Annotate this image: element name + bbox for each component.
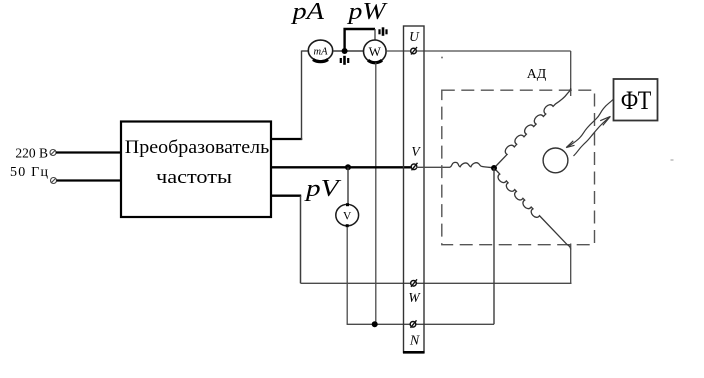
ammeter PA1 (mA) xyxy=(308,40,332,62)
node terminal V xyxy=(411,163,417,171)
artifact dash xyxy=(671,159,674,161)
node junction ammeter-wattmeter xyxy=(342,48,348,54)
wire U down into motor xyxy=(570,51,572,96)
svg-text:pW: pW xyxy=(346,0,388,25)
winding phase W xyxy=(495,169,571,250)
svg-text:50 Гц: 50 Гц xyxy=(10,165,49,180)
wire wattmeter to terminal strip U xyxy=(386,50,571,52)
wire main V line converter to strip xyxy=(271,166,416,168)
wire strip V to motor winding xyxy=(416,166,449,168)
wire 50Hz to converter xyxy=(57,179,122,181)
wire vertical down from converter xyxy=(300,196,302,284)
arrow light beam to shaft xyxy=(566,100,613,148)
wire ammeter to junction xyxy=(333,50,364,52)
svg-text:N: N xyxy=(409,334,420,349)
node terminal W xyxy=(411,279,417,287)
winding phase V xyxy=(449,162,494,167)
wire converter output U stub xyxy=(271,138,302,140)
wire vertical up to ammeter xyxy=(301,51,303,141)
node terminal N xyxy=(410,320,416,328)
wire star point down to N xyxy=(493,168,495,324)
node terminal U xyxy=(411,47,417,55)
wire jumper junction to wattmeter voltage terminal xyxy=(345,29,375,51)
svg-text:pA: pA xyxy=(290,0,325,25)
wattmeter PW1 xyxy=(364,40,387,63)
svg-text:U: U xyxy=(409,29,420,44)
wire to ammeter xyxy=(302,50,310,52)
motor dashed enclosure xyxy=(442,90,595,245)
wire 220V to converter xyxy=(56,151,121,153)
winding phase U xyxy=(496,88,571,166)
wire W line horizontal xyxy=(301,282,572,284)
svg-text:частоты: частоты xyxy=(156,167,232,188)
node star point xyxy=(491,165,497,171)
wattmeter polarity mark upper xyxy=(380,27,387,36)
svg-text:pV: pV xyxy=(304,175,343,202)
terminal strip xyxy=(403,26,425,353)
svg-text:V: V xyxy=(343,211,352,223)
wire winding W down to W line xyxy=(570,244,572,284)
wire N line horizontal xyxy=(347,323,494,325)
wire converter output W stub xyxy=(271,194,301,196)
svg-text:W: W xyxy=(408,290,421,305)
svg-text:W: W xyxy=(369,44,382,59)
photo tachometer box ФТ xyxy=(614,79,658,121)
wire voltmeter down to N line xyxy=(346,227,348,324)
svg-text:mA: mA xyxy=(314,47,329,58)
svg-text:V: V xyxy=(411,144,421,159)
wire junction down to voltmeter xyxy=(347,167,349,204)
svg-text:АД: АД xyxy=(527,67,547,82)
arrow light beam reflected to ФТ xyxy=(574,116,611,156)
artifact dot xyxy=(441,57,443,59)
node junction wattmeter return on N xyxy=(372,321,378,327)
node junction voltmeter tap xyxy=(345,164,351,170)
wattmeter polarity mark lower xyxy=(341,56,348,65)
node 220V input terminal xyxy=(50,150,56,156)
wire wattmeter voltage coil down xyxy=(375,63,377,325)
voltmeter PV1 xyxy=(336,203,359,227)
svg-text:ФТ: ФТ xyxy=(621,85,652,115)
svg-text:220 В: 220 В xyxy=(15,146,48,161)
node 50Hz input terminal xyxy=(51,178,57,184)
motor shaft circle xyxy=(543,148,568,173)
frequency converter box xyxy=(121,122,271,218)
svg-text:Преобразователь: Преобразователь xyxy=(125,137,270,158)
